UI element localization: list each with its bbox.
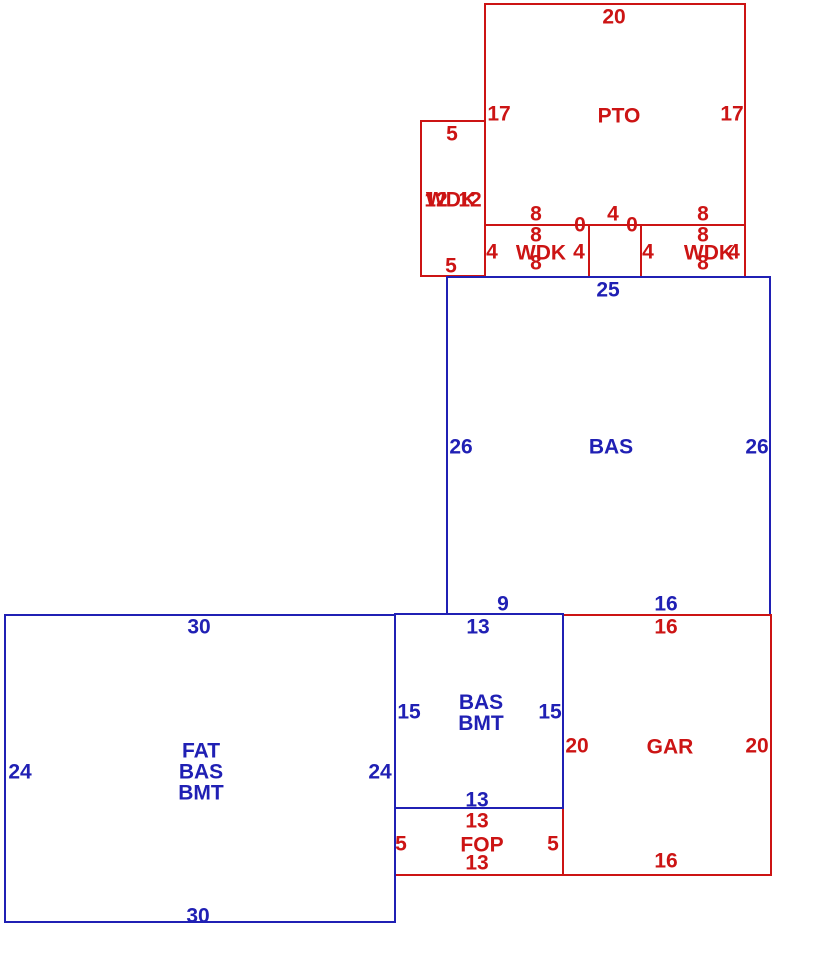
dim 8 left WDK inside bottom xyxy=(530,253,542,274)
FAT top wall xyxy=(4,614,396,616)
FOP left wall xyxy=(394,807,396,876)
BAS left wall xyxy=(446,276,448,615)
dim 13 BAS BMT bottom xyxy=(465,790,488,811)
dim 12 tall WDK left xyxy=(424,190,447,211)
dim 25 BAS top xyxy=(596,280,619,301)
FAT bottom wall xyxy=(4,921,396,923)
dim 0 left of gap xyxy=(574,215,586,236)
dim 17 PTO right xyxy=(720,104,743,125)
BAS BMT top wall xyxy=(394,613,564,615)
dim 5 tall WDK bottom xyxy=(445,256,457,277)
FOP right wall xyxy=(562,807,564,876)
dim 26 BAS right xyxy=(745,437,768,458)
dim 17 PTO left xyxy=(487,104,510,125)
BAS BMT right wall xyxy=(562,613,564,809)
dim 16 GAR bottom xyxy=(654,851,677,872)
FOP top wall xyxy=(394,807,564,809)
GAR left wall xyxy=(562,614,564,876)
dim 13 BAS BMT top xyxy=(466,617,489,638)
FOP bottom wall xyxy=(394,874,564,876)
BAS BMT left wall xyxy=(394,613,396,809)
dim 20 GAR left xyxy=(565,736,588,757)
dim 24 FAT left xyxy=(8,762,31,783)
area label BAS BMT xyxy=(458,692,504,734)
FAT left wall xyxy=(4,614,6,923)
PTO bottom / WDK deck top wall xyxy=(484,224,746,226)
dim 0 right of gap xyxy=(626,215,638,236)
dim 8 right WDK top outside xyxy=(697,204,709,225)
dim 4 left WDK right xyxy=(573,242,585,263)
PTO patio top wall xyxy=(484,3,746,5)
dim 5 FOP right xyxy=(547,834,559,855)
right WDK deck left wall xyxy=(640,224,642,277)
dim 24 FAT right xyxy=(368,762,391,783)
dim 26 BAS left xyxy=(449,437,472,458)
tall WDK deck top wall xyxy=(420,120,486,122)
dim 16 GAR top xyxy=(654,617,677,638)
dim 4 right WDK left xyxy=(642,242,654,263)
dim 12 tall WDK right xyxy=(458,190,481,211)
dim 8 right WDK inside top xyxy=(697,225,709,246)
dim 20 PTO top xyxy=(602,7,625,28)
dim 8 left WDK inside top xyxy=(530,225,542,246)
dim 30 FAT top xyxy=(187,617,210,638)
dim 5 tall WDK top xyxy=(446,124,458,145)
left WDK deck right wall xyxy=(588,224,590,277)
dim 13 FOP bottom xyxy=(465,853,488,874)
GAR bottom wall xyxy=(562,874,772,876)
dim 20 GAR right xyxy=(745,736,768,757)
dim 9 BAS bottom left segment xyxy=(497,594,509,615)
area label WDK left deck xyxy=(516,243,566,264)
area label PTO xyxy=(598,106,641,127)
BAS right wall xyxy=(769,276,771,615)
GAR right wall xyxy=(770,614,772,876)
area label WDK tall xyxy=(426,190,476,211)
dim 30 FAT bottom xyxy=(186,906,209,927)
tall WDK deck bottom wall xyxy=(420,275,486,277)
area label GAR xyxy=(647,737,694,758)
tall WDK deck left wall xyxy=(420,120,422,277)
dim 13 FOP top xyxy=(465,811,488,832)
BAS top wall xyxy=(446,276,771,278)
dim 15 BAS BMT left xyxy=(397,702,420,723)
area label FOP xyxy=(460,835,503,856)
PTO right wall (down to BAS) xyxy=(744,3,746,277)
dim 8 left WDK top outside xyxy=(530,204,542,225)
dim 8 right WDK inside bottom xyxy=(697,253,709,274)
area label BAS xyxy=(589,437,633,458)
dim 15 BAS BMT right xyxy=(538,702,561,723)
dim 4 gap top xyxy=(607,204,619,225)
area label FAT BAS BMT xyxy=(178,741,224,804)
area label WDK right deck xyxy=(684,243,734,264)
FAT right wall xyxy=(394,614,396,923)
BAS BMT bottom wall xyxy=(394,807,564,809)
dim 5 FOP left xyxy=(395,834,407,855)
PTO left wall (down to BAS) xyxy=(484,3,486,277)
dim 16 BAS bottom right segment xyxy=(654,594,677,615)
GAR top wall xyxy=(562,614,772,616)
dim 4 left WDK left xyxy=(486,242,498,263)
BAS bottom wall (left 9ft segment) xyxy=(446,613,564,615)
dim 4 right WDK right xyxy=(728,242,740,263)
